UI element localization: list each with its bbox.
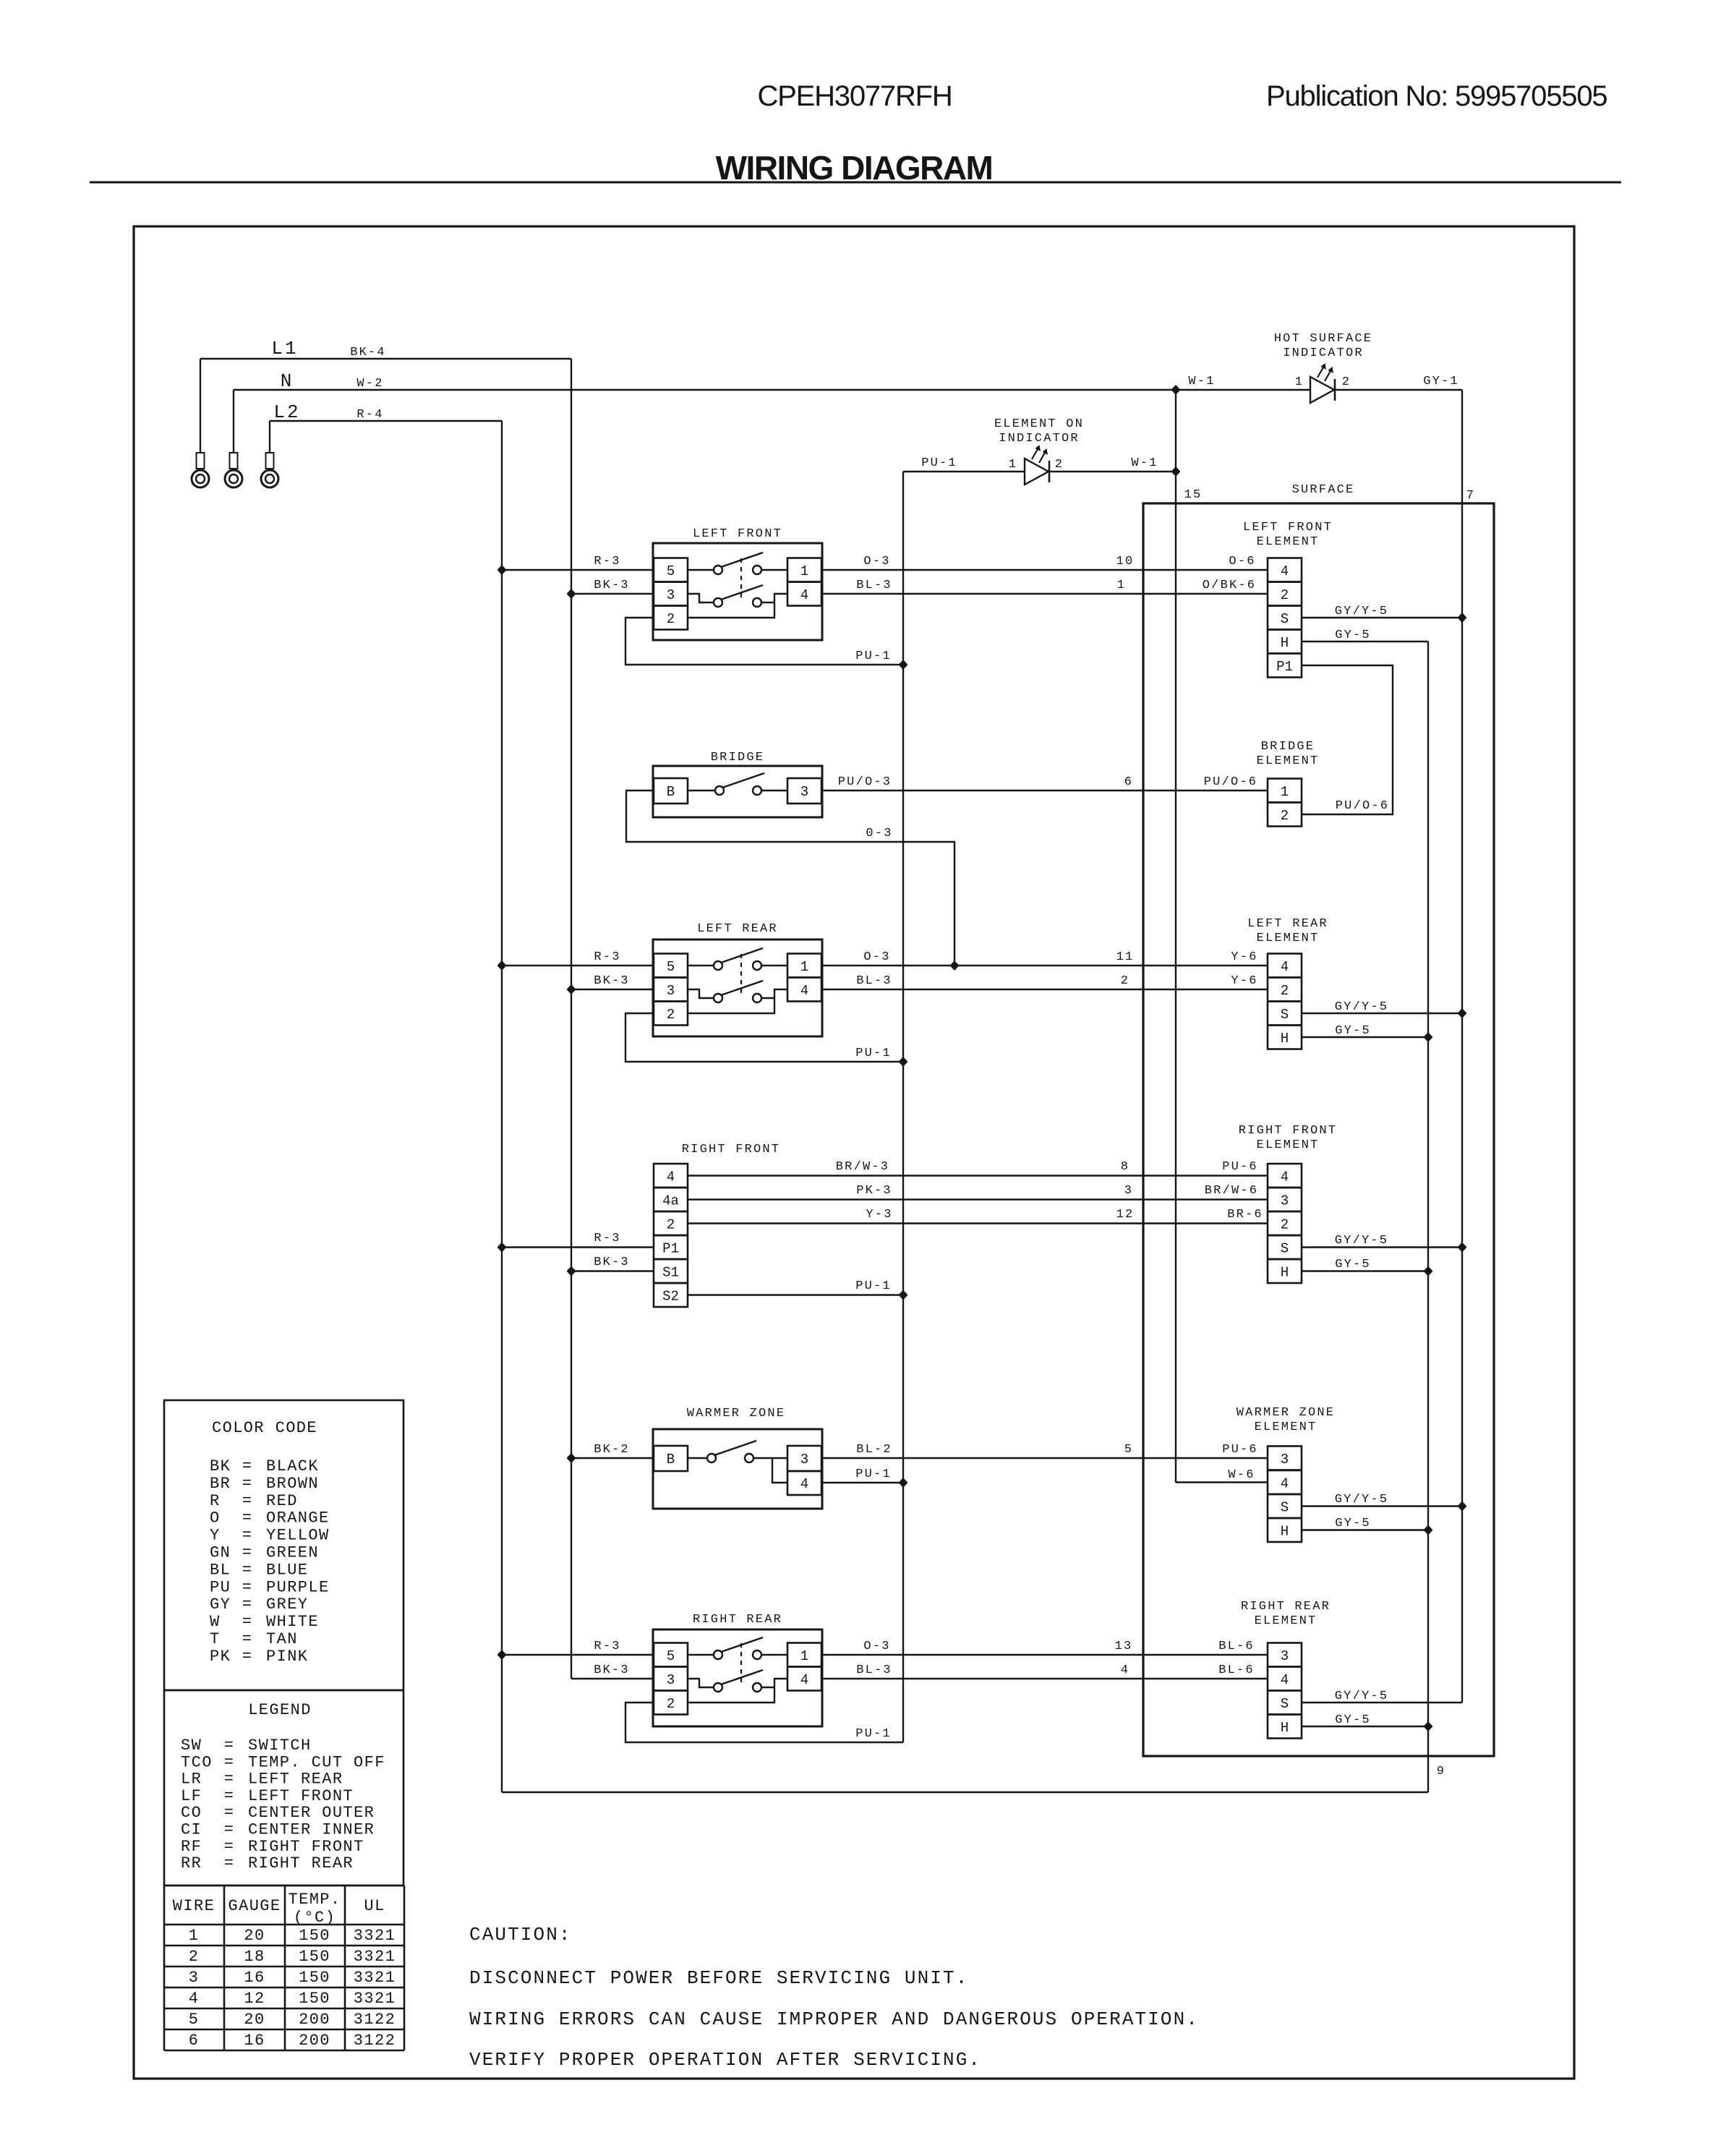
pin S LEFT REAR element — [1268, 1002, 1302, 1026]
svg-text:SWITCH: SWITCH — [248, 1737, 312, 1755]
svg-text:11: 11 — [1116, 950, 1135, 964]
pin 4a RIGHT FRONT — [654, 1188, 688, 1211]
lever pole1 LEFT REAR SW2 — [721, 948, 763, 963]
wire PU-1 from LEFT FRONT pin 2 — [625, 618, 903, 665]
svg-text:P1: P1 — [662, 1241, 679, 1257]
pin 2 RIGHT FRONT — [654, 1211, 688, 1235]
svg-text:=: = — [242, 1578, 253, 1596]
svg-text:=: = — [224, 1838, 235, 1856]
wire PU-1 from RIGHT FRONT pin S2 — [688, 1294, 903, 1295]
svg-text:=: = — [242, 1561, 253, 1579]
svg-text:INDICATOR: INDICATOR — [1283, 346, 1364, 360]
lever pole1 RIGHT REAR SW3 — [721, 1637, 763, 1652]
wire BK-3 to RIGHT REAR pin 3 — [571, 1678, 654, 1679]
svg-text:=: = — [242, 1457, 253, 1475]
svg-text:R-3: R-3 — [594, 1640, 620, 1653]
svg-text:1: 1 — [189, 1927, 200, 1945]
svg-text:O-3: O-3 — [863, 950, 890, 964]
junction W-1 at element-on indicator — [1171, 466, 1181, 477]
wire L2 R-4 horizontal — [270, 420, 502, 422]
bus W-1/W-6 vertical — [1175, 390, 1176, 1483]
svg-text:CENTER OUTER: CENTER OUTER — [248, 1804, 375, 1822]
svg-text:S: S — [1281, 1696, 1289, 1712]
pin H WARMER ZONE element — [1268, 1518, 1302, 1542]
junction GY/Y-5 right front — [1458, 1243, 1467, 1253]
junction R-4/R-3 right rear — [497, 1650, 507, 1660]
lever pole1 LEFT FRONT SW1 — [721, 553, 763, 567]
color code box — [164, 1400, 403, 1690]
svg-text:ELEMENT ON: ELEMENT ON — [994, 417, 1084, 431]
wire GY-5 from left rear element H — [1302, 1036, 1428, 1038]
svg-text:2: 2 — [1281, 1217, 1289, 1233]
svg-text:COLOR CODE: COLOR CODE — [212, 1419, 317, 1437]
svg-text:=: = — [224, 1854, 235, 1872]
svg-text:BL-3: BL-3 — [856, 1663, 892, 1677]
svg-text:LEFT REAR: LEFT REAR — [1247, 917, 1328, 931]
svg-text:1: 1 — [1281, 784, 1289, 800]
svg-text:GY-1: GY-1 — [1423, 375, 1459, 388]
svg-text:LEFT REAR: LEFT REAR — [697, 922, 778, 936]
svg-text:PU-1: PU-1 — [921, 456, 957, 470]
svg-text:5: 5 — [1124, 1443, 1133, 1457]
svg-text:150: 150 — [299, 1927, 330, 1945]
pin S2 RIGHT FRONT — [654, 1283, 688, 1307]
svg-text:RF: RF — [181, 1838, 202, 1856]
pin 5 LEFT REAR SW2 — [654, 954, 688, 978]
pin S LEFT FRONT element — [1268, 606, 1302, 630]
svg-text:PU: PU — [210, 1578, 231, 1596]
svg-text:5: 5 — [667, 959, 675, 975]
pin 2 LEFT REAR element — [1268, 978, 1302, 1002]
svg-text:BL-6: BL-6 — [1218, 1663, 1255, 1677]
svg-text:(°C): (°C) — [294, 1909, 336, 1927]
bus GY/Y-5 / GY-1 vertical — [1461, 390, 1463, 1703]
pin 4 WARMER ZONE — [787, 1471, 821, 1495]
junction W-1 at W-2 wire — [1171, 385, 1181, 395]
svg-text:3122: 3122 — [354, 2032, 396, 2050]
svg-text:BL-3: BL-3 — [856, 974, 892, 988]
svg-text:4: 4 — [1281, 1169, 1289, 1185]
svg-text:GAUGE: GAUGE — [228, 1897, 281, 1915]
pin 2 BRIDGE element — [1268, 803, 1302, 827]
junction BK-4/BK-3 left rear — [567, 984, 576, 994]
lever pole2 RIGHT REAR SW3 — [721, 1670, 763, 1684]
svg-text:3: 3 — [800, 784, 808, 800]
svg-text:=: = — [224, 1821, 235, 1839]
pin 2 LEFT REAR SW2 — [654, 1002, 688, 1026]
svg-text:S: S — [1281, 611, 1289, 627]
svg-text:HOT SURFACE: HOT SURFACE — [1274, 332, 1372, 346]
wire Y-3 / BR-6 right front to element — [688, 1222, 1268, 1224]
junction GY-5 warmer zone — [1424, 1525, 1433, 1535]
svg-text:RIGHT REAR: RIGHT REAR — [693, 1613, 782, 1627]
wire BK-3 to LEFT REAR pin 3 — [571, 989, 654, 990]
svg-text:LF: LF — [181, 1787, 202, 1805]
pin H LEFT FRONT element — [1268, 630, 1302, 654]
svg-text:=: = — [242, 1544, 253, 1562]
svg-text:GY/Y-5: GY/Y-5 — [1335, 1000, 1388, 1014]
wire PK-3 / BR/W-6 right front to element — [688, 1198, 1268, 1200]
junction R-4/R-3 left rear — [497, 960, 507, 971]
wire O-3 / Y-6 left rear to element — [822, 965, 1268, 966]
svg-text:2: 2 — [1281, 808, 1289, 824]
pin 3 RIGHT REAR SW3 — [654, 1667, 688, 1691]
svg-text:H: H — [1281, 1720, 1289, 1736]
svg-text:=: = — [242, 1630, 253, 1648]
svg-text:LEFT FRONT: LEFT FRONT — [693, 527, 782, 541]
svg-text:BR: BR — [210, 1475, 231, 1493]
svg-text:4: 4 — [667, 1169, 675, 1185]
contact pole1 LEFT REAR SW2 — [688, 965, 714, 966]
junction GY/Y-5 left rear — [1458, 1008, 1467, 1018]
svg-text:BL-3: BL-3 — [856, 579, 892, 592]
svg-text:R: R — [210, 1492, 221, 1510]
svg-text:9: 9 — [1437, 1765, 1445, 1778]
svg-text:Publication No: 5995705505: Publication No: 5995705505 — [1266, 80, 1607, 112]
junction PU-1 left rear — [899, 1057, 908, 1067]
svg-text:=: = — [242, 1648, 253, 1666]
wire BL-3 / O/BK-6 left front to element — [822, 593, 1268, 595]
wire GY/Y-5 from left front element S — [1302, 617, 1462, 618]
svg-text:1: 1 — [1117, 579, 1126, 592]
pin 1 LEFT REAR SW2 — [787, 954, 821, 978]
svg-text:LR: LR — [181, 1771, 202, 1789]
svg-text:BL-6: BL-6 — [1218, 1640, 1255, 1653]
svg-text:TEMP. CUT OFF: TEMP. CUT OFF — [248, 1753, 385, 1771]
svg-text:2: 2 — [667, 1217, 675, 1233]
svg-text:12: 12 — [1116, 1208, 1135, 1222]
junction O-3 bridge to left rear — [950, 960, 960, 971]
svg-text:INDICATOR: INDICATOR — [999, 432, 1080, 446]
lever pole2 LEFT FRONT SW1 — [721, 585, 763, 600]
svg-text:BK-3: BK-3 — [594, 1663, 630, 1677]
svg-text:S1: S1 — [662, 1265, 679, 1281]
contact pole1 LEFT FRONT SW1 — [688, 569, 714, 571]
lever pole2 LEFT REAR SW2 — [721, 981, 763, 995]
wire N W-2 horizontal — [234, 389, 1310, 391]
svg-text:=: = — [242, 1475, 253, 1493]
svg-text:=: = — [224, 1753, 235, 1771]
svg-text:DISCONNECT POWER BEFORE SERVIC: DISCONNECT POWER BEFORE SERVICING UNIT. — [469, 1967, 968, 1989]
svg-text:ELEMENT: ELEMENT — [1257, 535, 1320, 549]
svg-text:4: 4 — [1281, 1672, 1289, 1688]
wire R-3 to RIGHT REAR pin 5 — [502, 1654, 654, 1656]
svg-text:O-3: O-3 — [863, 1640, 890, 1653]
contact pole1 RIGHT REAR SW3 — [688, 1654, 714, 1656]
svg-text:W-1: W-1 — [1188, 375, 1215, 388]
wire PU-1 from LEFT REAR pin 2 — [625, 1013, 903, 1062]
pin 2 RIGHT FRONT element — [1268, 1211, 1302, 1235]
svg-text:2: 2 — [1121, 974, 1129, 988]
svg-text:4: 4 — [800, 983, 808, 999]
svg-text:2: 2 — [667, 1007, 675, 1023]
svg-text:GY-5: GY-5 — [1335, 1258, 1371, 1271]
bus GY-5 vertical — [1427, 642, 1429, 1792]
svg-text:16: 16 — [244, 2032, 265, 2050]
svg-text:CI: CI — [181, 1821, 202, 1839]
svg-text:TAN: TAN — [266, 1630, 298, 1648]
svg-text:4: 4 — [1281, 959, 1289, 975]
svg-text:2: 2 — [667, 611, 675, 627]
svg-text:GY/Y-5: GY/Y-5 — [1335, 1493, 1388, 1507]
svg-text:PU-6: PU-6 — [1222, 1443, 1258, 1457]
contact pole2 LEFT FRONT SW1 — [688, 594, 714, 602]
svg-text:3: 3 — [189, 1969, 200, 1987]
terminal lug L1 — [200, 359, 201, 453]
svg-text:Y: Y — [210, 1527, 221, 1545]
svg-text:PINK: PINK — [266, 1648, 308, 1666]
svg-text:RIGHT FRONT: RIGHT FRONT — [248, 1838, 364, 1856]
pin 4 RIGHT REAR SW3 — [787, 1667, 821, 1691]
svg-text:3: 3 — [800, 1452, 808, 1467]
svg-text:T: T — [210, 1630, 221, 1648]
svg-text:3122: 3122 — [354, 2011, 396, 2029]
svg-text:4: 4 — [1281, 1476, 1289, 1492]
svg-text:W: W — [210, 1613, 221, 1631]
pin 1 BRIDGE element — [1268, 779, 1302, 803]
pin 3 WARMER ZONE element — [1268, 1446, 1302, 1470]
svg-text:WARMER ZONE: WARMER ZONE — [687, 1407, 785, 1420]
svg-text:4: 4 — [800, 1672, 808, 1688]
pin 4 LEFT FRONT element — [1268, 558, 1302, 582]
wire GY/Y-5 from right front element S — [1302, 1246, 1462, 1248]
svg-text:3: 3 — [667, 983, 675, 999]
svg-text:=: = — [242, 1492, 253, 1510]
bus BK-4 vertical (L1) — [571, 359, 572, 1679]
svg-text:1: 1 — [1295, 375, 1304, 389]
contact BRIDGE — [688, 790, 715, 791]
pin S RIGHT FRONT element — [1268, 1235, 1302, 1259]
svg-text:WIRING ERRORS CAN CAUSE IMPROP: WIRING ERRORS CAN CAUSE IMPROPER AND DAN… — [469, 2008, 1199, 2030]
wire R-3 to LEFT FRONT pin 5 — [502, 569, 654, 571]
switch LEFT REAR SW2 outer box — [653, 939, 822, 1036]
wire O-3 / BL-6 right rear to element — [822, 1654, 1268, 1656]
svg-text:PU-6: PU-6 — [1222, 1160, 1258, 1174]
svg-text:12: 12 — [244, 1990, 265, 2008]
svg-text:BRIDGE: BRIDGE — [711, 751, 764, 764]
svg-text:BR-6: BR-6 — [1227, 1208, 1263, 1222]
svg-text:ELEMENT: ELEMENT — [1255, 1614, 1317, 1628]
gang link RIGHT REAR SW3 — [740, 1643, 742, 1683]
svg-text:1: 1 — [800, 563, 808, 579]
lever WARMER ZONE — [714, 1441, 756, 1455]
pin 1 LEFT FRONT SW1 — [787, 558, 821, 582]
svg-text:3: 3 — [1124, 1184, 1133, 1198]
svg-text:4: 4 — [800, 1476, 808, 1492]
svg-text:150: 150 — [299, 1990, 330, 2008]
svg-text:=: = — [224, 1737, 235, 1755]
svg-text:3: 3 — [1281, 1648, 1289, 1664]
svg-text:0-3: 0-3 — [866, 827, 892, 840]
pin 3 WARMER ZONE — [787, 1446, 821, 1471]
svg-text:=: = — [224, 1804, 235, 1822]
svg-text:TEMP.: TEMP. — [288, 1891, 341, 1909]
svg-text:3: 3 — [667, 1672, 675, 1688]
junction PU-1 left front — [899, 660, 908, 670]
svg-text:W-1: W-1 — [1131, 456, 1158, 470]
svg-text:15: 15 — [1184, 488, 1203, 502]
pin 3 RIGHT FRONT element — [1268, 1188, 1302, 1211]
gang link LEFT REAR SW2 — [740, 954, 742, 994]
svg-text:WIRE: WIRE — [173, 1897, 215, 1915]
svg-text:CAUTION:: CAUTION: — [469, 1924, 572, 1946]
pin B BRIDGE — [654, 778, 688, 804]
svg-text:RIGHT FRONT: RIGHT FRONT — [1239, 1124, 1337, 1138]
svg-text:P1: P1 — [1276, 659, 1293, 675]
svg-text:BR/W-3: BR/W-3 — [836, 1160, 889, 1174]
svg-text:150: 150 — [299, 1969, 330, 1987]
svg-text:10: 10 — [1116, 555, 1135, 568]
svg-text:2: 2 — [1281, 983, 1289, 999]
svg-text:GY-5: GY-5 — [1335, 1024, 1371, 1038]
wire PU-1 to element-on indicator — [903, 471, 1025, 472]
svg-text:2: 2 — [1055, 458, 1064, 472]
junction BK-4/BK-2 warmer zone — [567, 1453, 576, 1463]
svg-text:H: H — [1281, 635, 1289, 651]
svg-text:3321: 3321 — [354, 1927, 396, 1945]
pin B WARMER ZONE — [654, 1446, 688, 1471]
pin 5 RIGHT REAR SW3 — [654, 1643, 688, 1667]
pin 4 LEFT REAR SW2 — [787, 978, 821, 1002]
svg-text:1: 1 — [1009, 458, 1017, 472]
svg-text:Y-6: Y-6 — [1231, 950, 1257, 964]
svg-text:PU-1: PU-1 — [855, 1727, 892, 1741]
svg-text:S2: S2 — [662, 1289, 679, 1305]
svg-text:BK-3: BK-3 — [594, 974, 630, 988]
svg-text:RIGHT FRONT: RIGHT FRONT — [682, 1143, 780, 1156]
pin 4 WARMER ZONE element — [1268, 1470, 1302, 1494]
junction GY/Y-5 warmer zone — [1458, 1501, 1467, 1512]
svg-text:S: S — [1281, 1241, 1289, 1257]
terminal lug N — [233, 390, 234, 453]
svg-text:BK-4: BK-4 — [350, 346, 386, 359]
wire GY/Y-5 from warmer zone element S — [1302, 1505, 1462, 1507]
svg-text:WARMER ZONE: WARMER ZONE — [1237, 1406, 1335, 1420]
svg-text:200: 200 — [299, 2032, 330, 2050]
svg-text:=: = — [224, 1787, 235, 1805]
svg-text:R-3: R-3 — [594, 555, 620, 568]
svg-text:2: 2 — [1281, 587, 1289, 603]
svg-text:PU/O-6: PU/O-6 — [1336, 799, 1389, 813]
junction GY-5 right front — [1424, 1266, 1433, 1277]
pin 4 RIGHT REAR element — [1268, 1667, 1302, 1691]
svg-text:CO: CO — [181, 1804, 202, 1822]
svg-text:PK-3: PK-3 — [856, 1184, 892, 1198]
svg-text:PU-1: PU-1 — [855, 1279, 892, 1293]
pin S WARMER ZONE element — [1268, 1494, 1302, 1518]
terminal lug L2 — [269, 421, 270, 453]
bus R-4 vertical (L2) — [501, 421, 503, 1792]
svg-text:CPEH3077RFH: CPEH3077RFH — [757, 80, 952, 112]
junction BK-4/BK-3 left front — [567, 589, 576, 599]
svg-text:Y-6: Y-6 — [1231, 974, 1257, 988]
wire L1 BK-4 horizontal — [200, 358, 571, 359]
wire R-3 to LEFT REAR pin 5 — [502, 965, 654, 966]
svg-text:B: B — [667, 784, 675, 800]
pin P1 RIGHT FRONT — [654, 1235, 688, 1259]
svg-text:2: 2 — [667, 1696, 675, 1712]
svg-text:18: 18 — [244, 1948, 265, 1966]
svg-text:3321: 3321 — [354, 1990, 396, 2008]
svg-text:BR/W-6: BR/W-6 — [1205, 1184, 1258, 1198]
svg-text:=: = — [242, 1527, 253, 1545]
svg-text:3: 3 — [1281, 1193, 1289, 1209]
svg-text:O: O — [210, 1509, 221, 1527]
svg-text:O/BK-6: O/BK-6 — [1203, 579, 1256, 592]
svg-text:H: H — [1281, 1031, 1289, 1047]
pin 2 LEFT FRONT SW1 — [654, 606, 688, 630]
svg-text:PU-1: PU-1 — [855, 1047, 892, 1060]
svg-text:W-6: W-6 — [1228, 1468, 1255, 1482]
svg-text:LEGEND: LEGEND — [248, 1701, 312, 1719]
wire PU/O-3 / PU/O-6 bridge to element — [821, 790, 1268, 791]
svg-text:5: 5 — [189, 2011, 200, 2029]
surface unit enclosure — [1143, 503, 1494, 1756]
svg-text:20: 20 — [244, 1927, 265, 1945]
svg-text:R-4: R-4 — [356, 408, 383, 422]
pin H RIGHT FRONT element — [1268, 1259, 1302, 1283]
svg-text:=: = — [224, 1771, 235, 1789]
svg-text:GY-5: GY-5 — [1335, 629, 1371, 642]
svg-text:6: 6 — [1124, 775, 1133, 789]
svg-text:PU-1: PU-1 — [855, 1467, 892, 1481]
svg-text:BK-2: BK-2 — [594, 1443, 630, 1457]
svg-text:RIGHT REAR: RIGHT REAR — [1241, 1600, 1331, 1614]
svg-text:H: H — [1281, 1524, 1289, 1540]
pin 4 RIGHT FRONT element — [1268, 1164, 1302, 1188]
svg-text:BLACK: BLACK — [266, 1457, 319, 1475]
svg-text:O-6: O-6 — [1229, 555, 1255, 568]
svg-text:GN: GN — [210, 1544, 231, 1562]
junction GY-5 left rear — [1424, 1032, 1433, 1042]
svg-text:PU-1: PU-1 — [855, 649, 892, 663]
bus PU-1 vertical — [902, 472, 904, 1742]
svg-text:4a: 4a — [662, 1193, 679, 1209]
svg-text:VERIFY PROPER OPERATION AFTER: VERIFY PROPER OPERATION AFTER SERVICING. — [469, 2049, 981, 2071]
wire P1 left front element to bridge element — [1302, 665, 1393, 814]
svg-text:150: 150 — [299, 1948, 330, 1966]
svg-text:TCO: TCO — [181, 1753, 213, 1771]
svg-text:3321: 3321 — [354, 1948, 396, 1966]
svg-text:GREY: GREY — [266, 1595, 308, 1614]
junction R-4/R-3 left front — [497, 565, 507, 575]
wire element-on indicator to W-1 — [1049, 471, 1176, 472]
svg-text:L1: L1 — [271, 338, 298, 359]
wire W-6 to warmer zone element pin 4 — [1176, 1481, 1268, 1483]
pin 4 RIGHT FRONT — [654, 1164, 688, 1188]
svg-text:PU/O-6: PU/O-6 — [1204, 775, 1257, 789]
svg-text:20: 20 — [244, 2011, 265, 2029]
svg-text:GREEN: GREEN — [266, 1544, 319, 1562]
svg-text:BROWN: BROWN — [266, 1475, 319, 1493]
svg-text:Y-3: Y-3 — [866, 1208, 892, 1222]
svg-text:ELEMENT: ELEMENT — [1257, 1138, 1320, 1152]
wire PU-1 from RIGHT REAR pin 2 — [625, 1703, 903, 1742]
svg-text:4: 4 — [800, 587, 808, 603]
wire R-3 to RIGHT FRONT pin P1 — [502, 1246, 654, 1248]
junction PU-1 right front — [899, 1290, 908, 1300]
svg-text:O-3: O-3 — [863, 555, 890, 568]
wire GY/Y-5 from left rear element S — [1302, 1013, 1462, 1014]
svg-text:BLUE: BLUE — [266, 1561, 308, 1579]
svg-text:ORANGE: ORANGE — [266, 1509, 330, 1527]
svg-text:RED: RED — [266, 1492, 298, 1510]
pin 3 BRIDGE — [787, 778, 821, 804]
svg-text:PK: PK — [210, 1648, 231, 1666]
pin 2 RIGHT REAR SW3 — [654, 1691, 688, 1715]
svg-text:WIRING DIAGRAM: WIRING DIAGRAM — [716, 149, 993, 187]
wire O-3 / O-6 left front to element — [822, 569, 1268, 571]
